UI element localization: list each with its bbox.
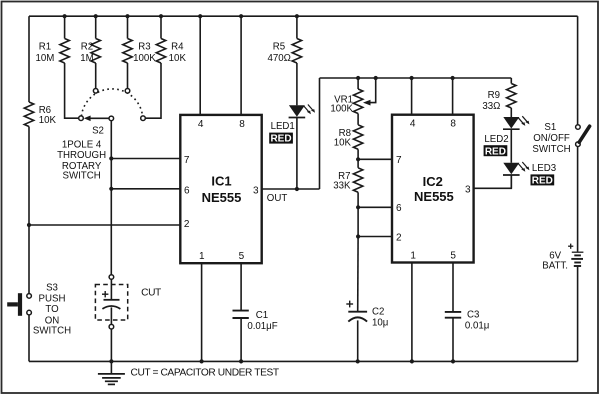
svg-text:6: 6 [184,186,190,197]
label R5 470ohm [267,41,290,64]
svg-text:R5: R5 [273,41,285,52]
wire: R7 bottom to C2 [357,237,359,312]
svg-text:5: 5 [450,251,456,262]
wire: IC1 pin1 to bottom rail [201,263,203,361]
svg-text:7: 7 [396,155,402,166]
svg-text:SWITCH: SWITCH [532,144,570,155]
svg-text:100K: 100K [133,53,156,64]
junction dot left rail pin2 [27,223,31,227]
label R4 10K [169,42,187,65]
wire: IC2 pin3 to LED3 [474,175,512,188]
svg-text:C3: C3 [467,310,479,321]
svg-text:S1: S1 [544,122,556,133]
svg-text:1M: 1M [80,53,93,64]
label R9 33ohm [482,90,500,112]
capacitor C3 [445,312,461,318]
svg-text:CUT: CUT [141,288,161,299]
label rotary switch description [57,140,106,182]
junction dots VR1/R8/R7 chain [356,157,360,238]
svg-text:1: 1 [199,251,205,262]
label VR1 100K [330,94,353,114]
svg-text:NE555: NE555 [202,190,242,205]
rotary switch S2 dotted arc [81,89,142,116]
resistor R5 with leads [292,16,301,105]
label 6V BATT. [542,250,568,271]
label IC2 NE555 [414,174,454,204]
wire: top supply rail [29,15,578,17]
wire: S2 pole down to CUT [110,121,112,275]
svg-text:10K: 10K [39,115,57,126]
wire: left rail R6 to S3 [28,127,30,294]
wire: right rail S1 to battery [577,146,579,251]
label RED badge for LED2 [484,145,508,157]
svg-text:LED3: LED3 [532,163,556,174]
label R2 1M [80,42,93,65]
wire: IC2 pin1 to bottom rail [411,263,413,362]
svg-text:R2: R2 [81,42,93,53]
switch S1 [576,125,590,147]
wire: LED1 cathode to OUT node [296,118,298,190]
resistor R7 with leads [353,159,362,236]
label C3 0.01u [465,310,489,332]
wire: LED2 cathode to LED3 anode [510,129,512,163]
svg-text:4: 4 [410,119,416,130]
LED2 [503,116,529,129]
svg-text:8: 8 [450,119,456,130]
svg-text:100K: 100K [330,103,353,114]
junction dot OUT node at LED1 [295,187,299,191]
svg-text:10K: 10K [334,138,352,149]
svg-text:S3: S3 [46,283,58,294]
svg-text:CUT = CAPACITOR UNDER TEST: CUT = CAPACITOR UNDER TEST [131,368,279,379]
svg-text:1: 1 [410,251,416,262]
wire: C2 to bottom rail [357,320,359,361]
wire: LED3 cathode short lead [510,175,512,188]
IC1 pin numbers [184,119,259,262]
wire: IC2 pin4 to second rail [411,78,413,115]
svg-text:8: 8 [239,119,245,130]
svg-text:10K: 10K [169,53,187,64]
capacitor under test inside CUT box [102,279,120,324]
junction dots S2 pole line to IC1 pins [109,156,113,191]
wire: right rail top segment [577,16,579,125]
CUT dashed box [95,285,127,321]
svg-text:2: 2 [396,232,402,243]
wire: IC1 pin4 to top rail [199,16,201,115]
CUT box terminals [109,275,114,329]
wire: S3 bottom to bottom rail [28,315,30,362]
svg-text:3: 3 [253,186,259,197]
VR1 wiper arrow [363,78,376,106]
wire: IC1 pin8 to top rail [240,16,242,115]
battery 6V [571,252,583,266]
junction dots top rail [63,14,300,18]
IC1 box [180,115,261,263]
resistor R3 with leads [127,16,129,38]
label RED badge for LED1 [269,133,293,145]
svg-text:5: 5 [239,251,245,262]
wire: IC2 pin8 to second rail [452,78,454,115]
svg-text:SWITCH: SWITCH [33,326,71,337]
wire: left rail upper segment [28,16,30,102]
svg-text:R1: R1 [39,42,51,53]
rotary switch S2 pole circle [109,116,114,121]
svg-text:IC1: IC1 [211,174,231,189]
svg-text:NE555: NE555 [414,189,454,204]
ground symbol [98,361,125,384]
svg-text:33K: 33K [333,181,351,192]
svg-text:R4: R4 [171,42,184,53]
label CUT plus sign [102,291,108,297]
svg-text:2: 2 [184,219,190,230]
wire: C1 to bottom rail [240,319,242,362]
svg-text:ON/OFF: ON/OFF [533,133,570,144]
wire: IC1 pin5 to C1 [240,263,242,310]
wire: riser from OUT to second rail [319,78,321,189]
resistor R1 with leads [64,16,66,38]
LED3 [503,162,529,175]
svg-text:RED: RED [270,134,291,145]
wire: IC2 pin6 node [358,206,392,208]
wire: IC2 pin5 to C3 [452,263,454,312]
label R7 33K [333,171,351,192]
svg-text:7: 7 [184,155,190,166]
wire: IC1 pin2 to left rail [29,224,180,226]
wire: CUT bottom to ground rail [110,329,112,362]
svg-text:RED: RED [485,146,506,157]
svg-text:0.01μ: 0.01μ [465,321,489,332]
IC2 pin numbers [396,119,471,262]
svg-text:R3: R3 [138,42,150,53]
label R1 10M [35,42,54,65]
rotary switch S2 wiper arm with arrow [90,117,110,119]
wire: second rail [320,77,512,79]
label R8 10K [334,128,352,149]
label C2 10u [372,307,388,329]
label C2 plus sign [346,301,353,308]
label R3 100K [133,42,156,65]
svg-text:BATT.: BATT. [542,260,568,271]
wire: IC2 pin2 node [358,236,392,238]
svg-text:1POLE 4: 1POLE 4 [62,140,102,151]
label IC1 NE555 [202,174,242,206]
svg-text:THROUGH: THROUGH [57,150,106,161]
junction dots second rail [356,76,455,80]
label S1 ON/OFF SWITCH [532,122,570,155]
IC2 box [392,115,474,263]
svg-text:33Ω: 33Ω [482,101,500,112]
svg-text:TO: TO [45,304,59,315]
svg-text:C2: C2 [372,307,384,318]
wire: IC1 pin6 to S2 pole line [111,188,180,190]
svg-text:10μ: 10μ [372,318,388,329]
wire: IC1 pin3 OUT line [262,188,320,190]
svg-text:C1: C1 [256,310,268,321]
resistor R4 with leads [160,16,162,38]
svg-text:6: 6 [396,203,402,214]
svg-text:LED2: LED2 [484,134,508,145]
label R6 10K [39,105,57,126]
LED1 [289,105,315,118]
wire: IC1 pin7 to S2 pole line [111,158,180,160]
potentiometer VR1 [353,78,362,125]
svg-text:SWITCH: SWITCH [62,171,100,182]
resistor R8 [353,125,362,160]
svg-text:PUSH: PUSH [39,293,66,304]
label S3 PUSH TO ON SWITCH [33,283,71,337]
resistor R2 with leads [95,16,97,38]
wire: C3 to bottom rail [452,318,454,362]
resistor R9 with leads [507,78,516,117]
rotary switch S2 contacts [79,116,84,121]
svg-text:0.01μF: 0.01μF [247,321,277,332]
push switch S3 [7,293,31,316]
svg-text:470Ω: 470Ω [267,53,290,64]
label RED badge for LED3 [531,174,555,186]
resistor R6 [24,102,33,126]
svg-text:R9: R9 [488,90,500,101]
svg-text:OUT: OUT [267,193,288,204]
label C1 0.01uF [247,310,277,332]
wire: bottom ground rail [29,360,578,362]
junction dots bottom rail [109,359,455,363]
wire: IC2 pin7 to R8/R7 node [358,158,392,160]
svg-text:S2: S2 [92,125,104,136]
label battery plus [568,244,573,249]
svg-text:3: 3 [465,185,471,196]
svg-text:LED1: LED1 [271,121,295,132]
svg-text:RED: RED [532,176,553,187]
svg-text:10M: 10M [35,53,54,64]
wire: right rail battery to bottom rail [577,267,579,362]
capacitor C2 electrolytic [348,312,367,322]
capacitor C1 [233,311,249,318]
svg-text:4: 4 [198,119,204,130]
svg-text:IC2: IC2 [423,174,443,189]
